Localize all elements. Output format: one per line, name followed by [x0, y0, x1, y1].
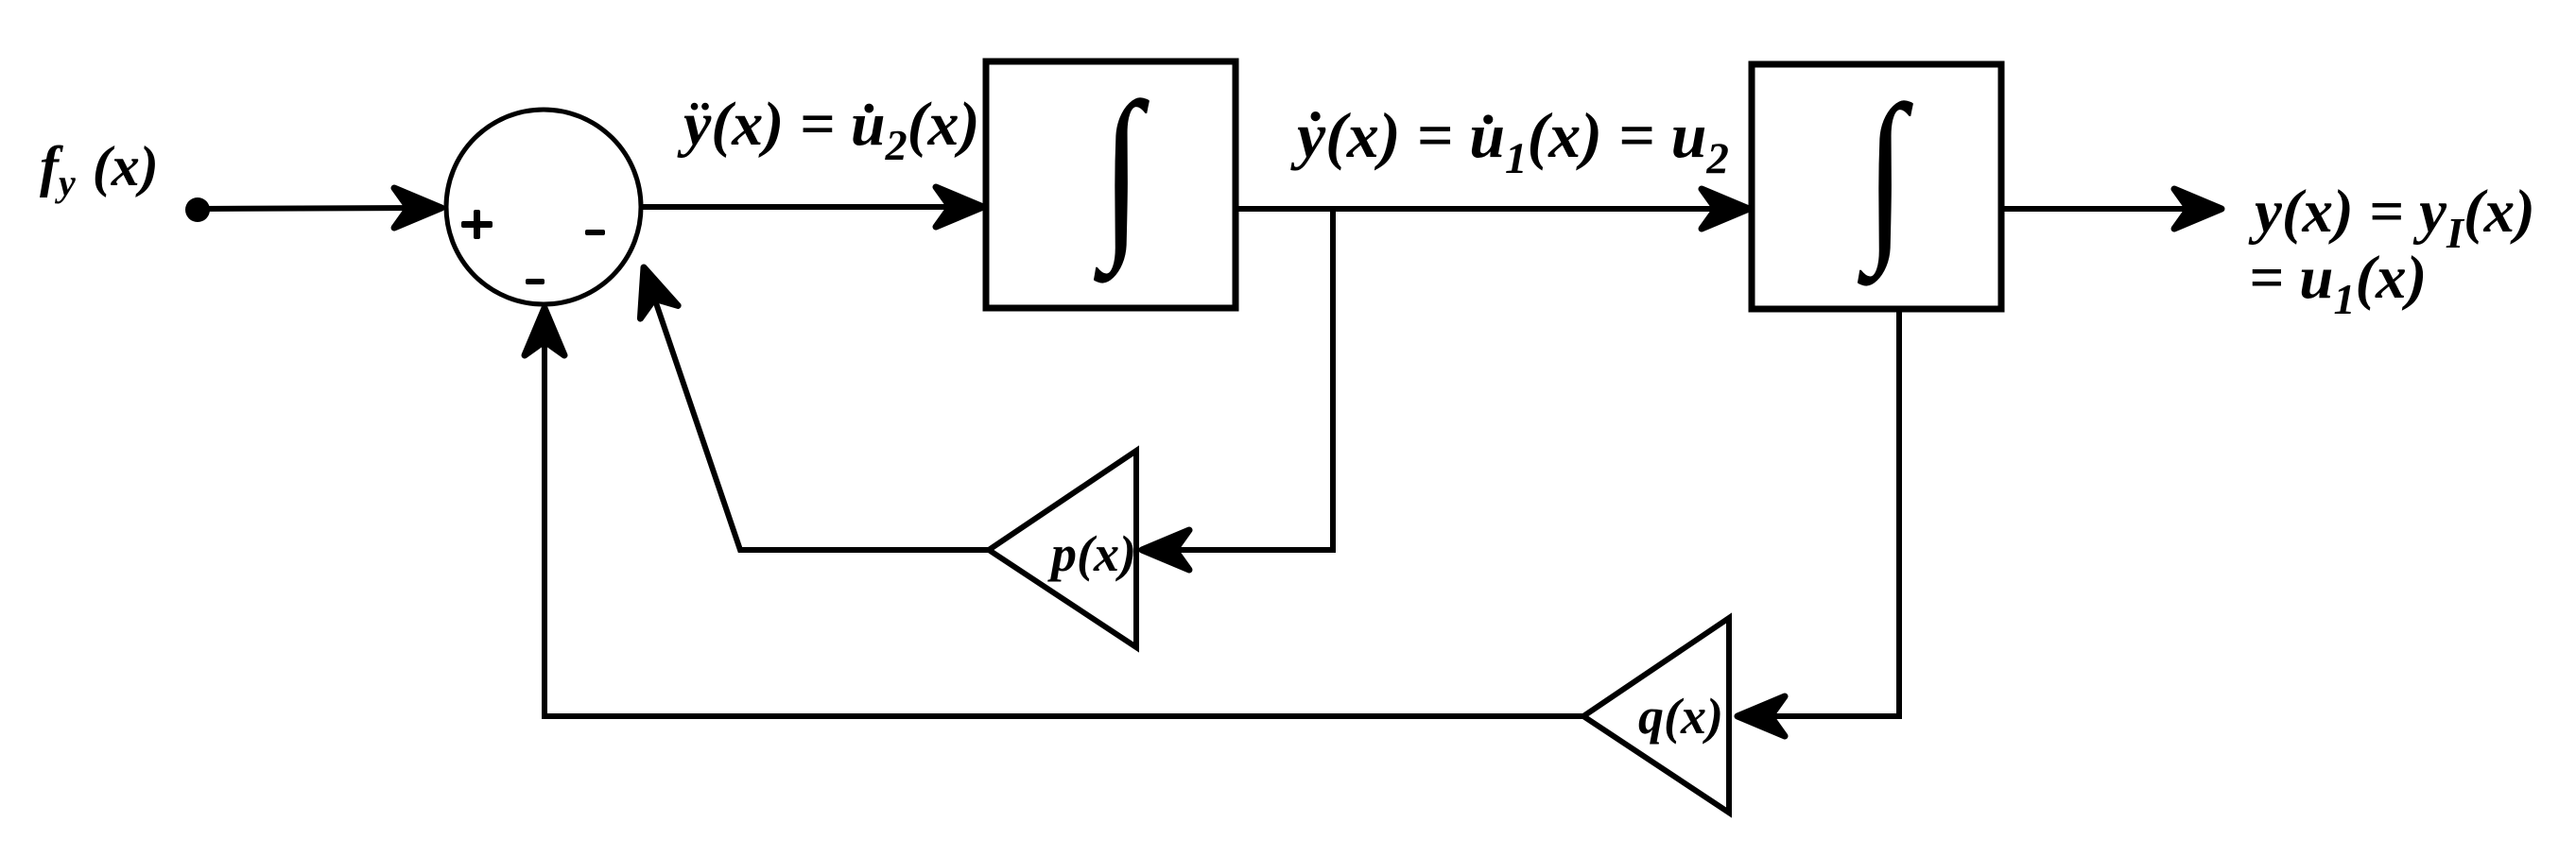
integrator block 1	[986, 61, 1236, 308]
svg-text:= u1(x): = u1(x)	[2249, 244, 2427, 323]
wire input to summer	[198, 208, 421, 209]
svg-text:q(x): q(x)	[1638, 688, 1723, 745]
svg-text:ÿ(x) = u̇2(x): ÿ(x) = u̇2(x)	[677, 90, 980, 169]
minus sign right	[585, 230, 605, 235]
output arrowhead	[2174, 189, 2222, 229]
input node dot	[185, 197, 210, 222]
node: branch T junction wire down and into p gain	[1158, 209, 1333, 550]
arrowhead into summer	[394, 188, 441, 228]
feedback wire p to diagonal corner and diagonal up to summer	[651, 289, 989, 550]
gain triangle p(x)	[989, 451, 1136, 647]
plus sign	[461, 210, 493, 239]
feedback wire q to below summer and up into summer	[545, 329, 1583, 716]
arrowhead into integrator 2	[1702, 189, 1749, 229]
wire down from integrator 2 and into q gain	[1754, 309, 1899, 716]
output wire	[2001, 206, 2203, 212]
gain triangle q(x)	[1583, 618, 1729, 813]
wire integrator 1 to integrator 2	[1236, 206, 1730, 212]
arrowhead into q gain	[1738, 696, 1785, 736]
summing junction circle	[446, 110, 641, 304]
svg-text:fy(x): fy(x)	[40, 135, 159, 204]
wire summer to integrator 1	[641, 204, 964, 210]
arrowhead diagonal into summer	[625, 261, 678, 318]
arrowhead into integrator 1	[936, 187, 983, 227]
svg-text:ẏ(x) = u̇1(x) = u2: ẏ(x) = u̇1(x) = u2	[1290, 99, 1729, 183]
integrator block 2	[1752, 64, 2001, 309]
svg-text:p(x): p(x)	[1047, 525, 1136, 582]
arrowhead into p gain	[1142, 530, 1189, 570]
arrowhead into summer bottom	[525, 308, 564, 355]
minus sign bottom	[526, 279, 545, 284]
